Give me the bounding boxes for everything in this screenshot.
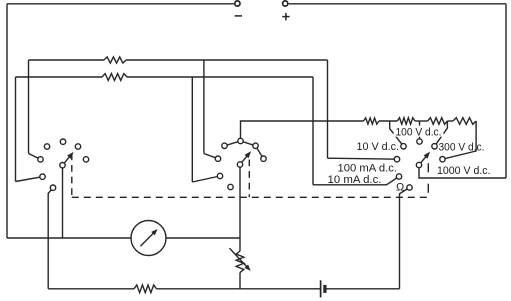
svg-text:Ω: Ω — [396, 182, 404, 194]
svg-text:300 V d.c.: 300 V d.c. — [439, 141, 485, 153]
svg-text:10 mA d.c.: 10 mA d.c. — [328, 174, 382, 186]
svg-text:10 V d.c.: 10 V d.c. — [357, 141, 400, 153]
svg-text:100 mA d.c.: 100 mA d.c. — [338, 162, 398, 174]
svg-text:1000 V d.c.: 1000 V d.c. — [437, 165, 491, 177]
svg-text:100 V d.c.: 100 V d.c. — [396, 126, 442, 138]
